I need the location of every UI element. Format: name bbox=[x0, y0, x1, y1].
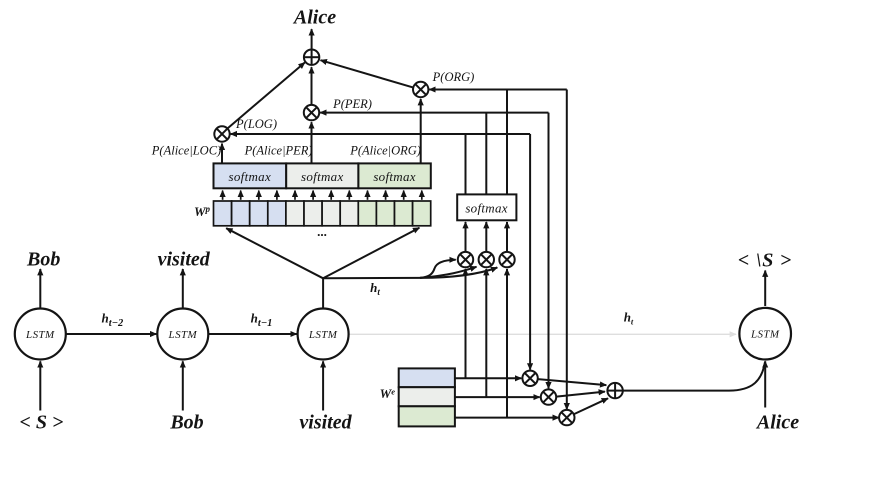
wire LSTM2 output to visited bbox=[182, 269, 184, 308]
wire P(LOG) corner down to x4 bbox=[529, 134, 531, 370]
wire LSTM1 output to Bob bbox=[39, 269, 41, 308]
Wp cell 4 bbox=[268, 201, 286, 226]
wire ht to Wp left (trapezoid) bbox=[226, 228, 323, 278]
wire cell4 to softmax bbox=[276, 191, 278, 200]
wire P(PER) corner down to x5 bbox=[548, 113, 550, 389]
wire x2 to type softmax bbox=[485, 222, 487, 252]
wire We row3 to x6 bbox=[455, 417, 559, 419]
svg-text:Bob: Bob bbox=[26, 249, 60, 271]
wire x1 to type softmax bbox=[465, 222, 467, 252]
wire xORG to plus node bbox=[321, 60, 414, 87]
node x4 multiplier (P(LOG) x e_LOC) bbox=[522, 371, 537, 386]
Wp cell 1 bbox=[214, 201, 232, 226]
svg-text:softmax: softmax bbox=[301, 169, 344, 184]
wire input visited to LSTM3 bbox=[322, 361, 324, 410]
svg-text:Bob: Bob bbox=[169, 412, 203, 434]
op-amp plus node P2 (expected entity embedding) bbox=[607, 383, 622, 398]
svg-text:P(PER): P(PER) bbox=[332, 97, 372, 111]
wire input Alice to LSTM4 bbox=[764, 361, 766, 407]
svg-text:P(LOG): P(LOG) bbox=[235, 117, 277, 131]
wire input Bob to LSTM2 bbox=[182, 361, 184, 410]
wire cell7 to softmax bbox=[330, 191, 332, 200]
svg-text:P(Alice|PER): P(Alice|PER) bbox=[244, 144, 313, 158]
node x6 multiplier (P(ORG) x e_ORG) bbox=[559, 410, 574, 425]
wire xLOG to plus node bbox=[227, 63, 304, 129]
Wp cell 2 bbox=[232, 201, 250, 226]
wire We row1 to x4 bbox=[455, 377, 521, 379]
node xLOG multiplier bbox=[214, 126, 229, 141]
wire x5 to plus node P2 bbox=[556, 392, 605, 397]
svg-text:softmax: softmax bbox=[465, 201, 508, 216]
wire plus node to Alice bbox=[311, 29, 313, 49]
softmax box PER (gray) bbox=[286, 163, 358, 188]
svg-text:LSTM: LSTM bbox=[25, 329, 55, 341]
node x2 multiplier (ht . e_PER) bbox=[479, 252, 494, 267]
svg-text:Alice: Alice bbox=[292, 7, 336, 29]
gray recurrent ht wire LSTM3 to LSTM4 bbox=[350, 333, 737, 335]
Wp cell 6 bbox=[304, 201, 322, 226]
wire xPER to plus node bbox=[311, 67, 313, 105]
wire softmax ORG to xORG bbox=[420, 99, 422, 163]
wire cell8 to softmax bbox=[348, 191, 350, 200]
wire cell9 to softmax bbox=[367, 191, 369, 200]
wire LSTM3 stem up to branch point bbox=[322, 278, 324, 308]
wire cell3 to softmax bbox=[258, 191, 260, 200]
We embedding row PER (gray) bbox=[399, 387, 455, 406]
Wp cell 12 bbox=[413, 201, 431, 226]
svg-text:visited: visited bbox=[299, 412, 352, 434]
svg-text:P(ORG): P(ORG) bbox=[432, 70, 475, 84]
wire cell11 to softmax bbox=[403, 191, 405, 200]
softmax box type (entity type softmax) bbox=[457, 194, 516, 220]
wire P(ORG) horizontal feed into xORG bbox=[429, 89, 567, 91]
svg-text:Alice: Alice bbox=[755, 412, 799, 434]
node x3 multiplier (ht . e_ORG) bbox=[499, 252, 514, 267]
wire cell10 to softmax bbox=[385, 191, 387, 200]
wire x3 to type softmax bbox=[506, 222, 508, 252]
Wp cell 3 bbox=[250, 201, 268, 226]
wire plus node P2 to LSTM4 input bbox=[623, 362, 765, 391]
svg-text:LSTM: LSTM bbox=[308, 329, 338, 341]
svg-text:softmax: softmax bbox=[229, 169, 272, 184]
svg-text:< \S >: < \S > bbox=[738, 250, 792, 272]
LSTM1 cell bbox=[15, 309, 66, 360]
softmax box ORG (green) bbox=[358, 163, 430, 188]
wire P(LOG) horizontal feed into xLOG bbox=[231, 133, 530, 135]
wire x4 to plus node P2 bbox=[538, 379, 606, 385]
wire ht branch into x3 bbox=[420, 268, 497, 278]
wire P(ORG) corner down to x6 bbox=[566, 90, 568, 410]
We embedding row LOC (blue) bbox=[399, 368, 455, 387]
wire ht branch into x1 bbox=[420, 260, 456, 278]
svg-text:visited: visited bbox=[158, 249, 211, 271]
svg-text:< S >: < S > bbox=[19, 412, 63, 434]
svg-text:LSTM: LSTM bbox=[750, 329, 780, 341]
wire LSTM2 to LSTM3 bbox=[208, 333, 296, 335]
Wp cell 5 bbox=[286, 201, 304, 226]
Wp cell 9 bbox=[358, 201, 376, 226]
Wp cell 11 bbox=[395, 201, 413, 226]
svg-text:LSTM: LSTM bbox=[168, 329, 198, 341]
wire We row2 to x5 bbox=[455, 396, 540, 398]
wire cell1 to softmax bbox=[222, 191, 224, 200]
op-amp plus node P1 (sum of weighted probabilities) bbox=[304, 50, 319, 65]
wire type softmax up-branch to P(ORG) line bbox=[506, 90, 508, 195]
wire softmax LOC to xLOG bbox=[221, 144, 223, 163]
wire ht to Wp right (trapezoid) bbox=[323, 228, 419, 279]
wire We row1 up into x1 bbox=[465, 269, 467, 378]
wire We row2 up into x2 bbox=[485, 269, 487, 397]
svg-text:softmax: softmax bbox=[373, 169, 416, 184]
node x1 multiplier (ht . e_LOC) bbox=[458, 252, 473, 267]
wire input S to LSTM1 bbox=[39, 361, 41, 410]
LSTM4 cell bbox=[739, 308, 791, 360]
wire ht main horizontal bbox=[323, 277, 420, 279]
LSTM2 cell bbox=[157, 309, 208, 360]
LSTM3 cell bbox=[298, 309, 349, 360]
Wp cell 8 bbox=[340, 201, 358, 226]
wire type softmax up-branch to P(PER) line bbox=[485, 113, 487, 195]
wire cell5 to softmax bbox=[294, 191, 296, 200]
svg-text:P(Alice|ORG): P(Alice|ORG) bbox=[349, 144, 421, 158]
node xPER multiplier bbox=[304, 105, 319, 120]
wire cell2 to softmax bbox=[240, 191, 242, 200]
wire We row3 up into x3 bbox=[506, 269, 508, 418]
wire x6 to plus node P2 bbox=[574, 398, 608, 414]
wire cell12 to softmax bbox=[421, 191, 423, 200]
node xORG multiplier bbox=[413, 82, 428, 97]
wire softmax PER to xPER bbox=[311, 122, 313, 163]
node x5 multiplier (P(PER) x e_PER) bbox=[541, 389, 556, 404]
svg-text:...: ... bbox=[317, 224, 327, 239]
wire P(PER) horizontal feed into xPER bbox=[320, 112, 548, 114]
wire LSTM4 output to end token bbox=[764, 271, 766, 307]
wire type softmax up-branch to P(LOG) line bbox=[465, 134, 467, 194]
wire LSTM1 to LSTM2 bbox=[66, 333, 157, 335]
Wp cell 10 bbox=[376, 201, 394, 226]
softmax box LOC (blue) bbox=[214, 163, 287, 188]
wire cell6 to softmax bbox=[312, 191, 314, 200]
wire ht branch into x2 bbox=[420, 267, 477, 278]
svg-text:P(Alice|LOC): P(Alice|LOC) bbox=[151, 144, 221, 158]
Wp cell 7 bbox=[322, 201, 340, 226]
We embedding row ORG (green) bbox=[399, 406, 455, 426]
